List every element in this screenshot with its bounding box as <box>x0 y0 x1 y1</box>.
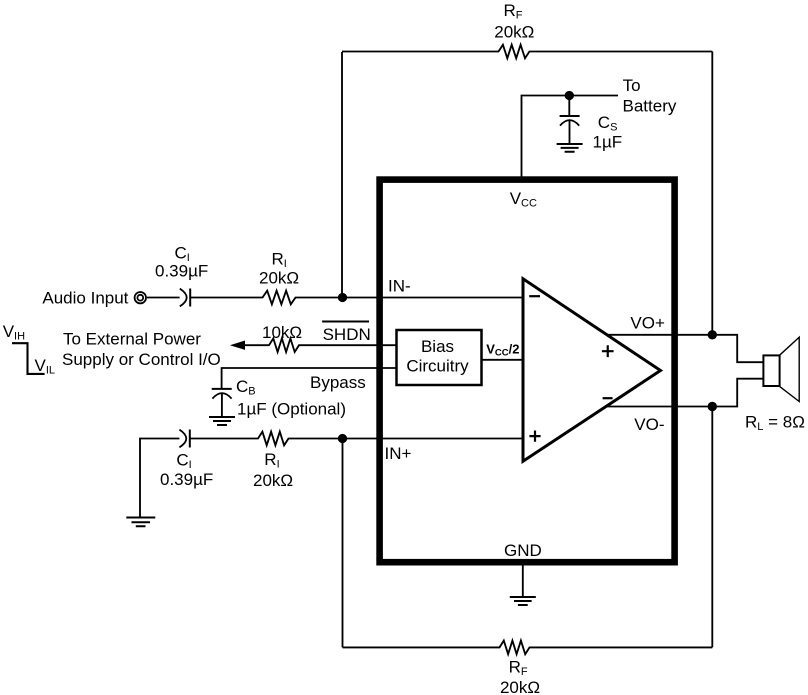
svg-text:0.39µF: 0.39µF <box>155 262 208 281</box>
svg-text:Circuitry: Circuitry <box>406 357 469 376</box>
svg-text:VO+: VO+ <box>630 314 665 333</box>
svg-text:To External Power: To External Power <box>63 329 201 348</box>
svg-text:20kΩ: 20kΩ <box>259 268 299 287</box>
svg-text:GND: GND <box>504 541 542 560</box>
svg-text:20kΩ: 20kΩ <box>500 678 540 695</box>
svg-text:10kΩ: 10kΩ <box>262 323 302 342</box>
svg-text:1µF (Optional): 1µF (Optional) <box>237 400 346 419</box>
svg-text:RL = 8Ω: RL = 8Ω <box>745 412 805 433</box>
svg-text:20kΩ: 20kΩ <box>253 471 293 490</box>
svg-text:Supply or Control I/O: Supply or Control I/O <box>62 350 221 369</box>
svg-text:SHDN: SHDN <box>323 325 371 344</box>
svg-text:To: To <box>623 76 641 95</box>
svg-text:Audio Input: Audio Input <box>42 289 128 308</box>
svg-text:1µF: 1µF <box>593 132 623 151</box>
svg-text:IN-: IN- <box>388 277 411 296</box>
svg-text:VO-: VO- <box>634 415 664 434</box>
svg-text:Bypass: Bypass <box>310 373 366 392</box>
svg-text:Battery: Battery <box>623 97 677 116</box>
svg-text:20kΩ: 20kΩ <box>494 22 534 41</box>
svg-text:0.39µF: 0.39µF <box>160 470 213 489</box>
svg-text:Bias: Bias <box>421 337 454 356</box>
svg-text:IN+: IN+ <box>385 444 412 463</box>
